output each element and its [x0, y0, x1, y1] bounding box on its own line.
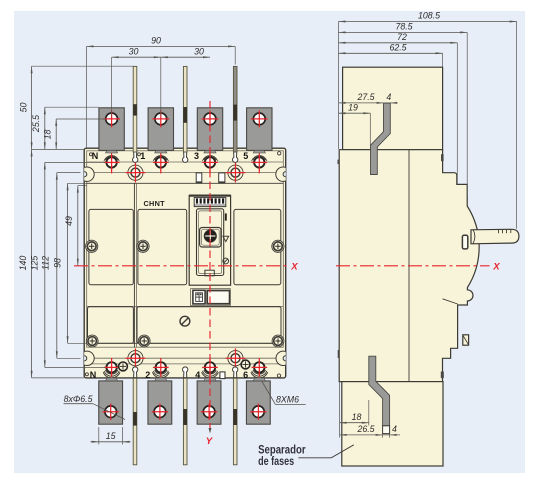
terminal screw bottom pole 6 [253, 370, 265, 374]
upper panel screw left [86, 240, 98, 252]
dim 49 [77, 186, 79, 266]
mount hole top-left edge [80, 167, 94, 181]
dim 30 b [161, 56, 210, 58]
dim 90 [87, 45, 236, 47]
accessory slot A [196, 173, 202, 183]
inner face border [87, 151, 284, 347]
slotted screw [180, 316, 190, 326]
dim 15 extension lines [98, 427, 100, 445]
svg-text:30: 30 [129, 46, 139, 56]
side view: phase separator bottom [369, 356, 390, 426]
svg-text:3: 3 [194, 151, 199, 161]
dim 78.5 [339, 31, 468, 33]
lower panel screw 2 [138, 335, 150, 347]
deg circle N bottom [85, 373, 88, 376]
svg-text:de fases: de fases [258, 454, 294, 468]
ext line 49 top [78, 185, 87, 187]
svg-text:15: 15 [106, 431, 116, 441]
svg-text:125: 125 [30, 256, 40, 271]
terminal tab top pole 1 [148, 108, 173, 151]
handle knob screw [204, 230, 216, 242]
svg-text:18: 18 [352, 412, 362, 422]
svg-text:18: 18 [42, 130, 52, 140]
svg-text:1: 1 [140, 151, 145, 161]
svg-text:140: 140 [18, 256, 28, 271]
ext line side left [338, 22, 340, 150]
svg-text:26.5: 26.5 [356, 424, 374, 434]
svg-text:27.5: 27.5 [356, 92, 374, 102]
dim 15 [91, 441, 131, 443]
mount hole bottom-right edge [276, 351, 290, 365]
label plate [191, 289, 231, 306]
terminal screw top pole N [105, 156, 117, 160]
svg-text:8XM6: 8XM6 [276, 394, 299, 404]
ext line bottom screws [45, 366, 105, 368]
leader 8XM6 [262, 382, 275, 405]
svg-text:4: 4 [392, 424, 397, 434]
handle knob [200, 228, 221, 248]
dim 18 side [340, 422, 369, 424]
keyhole slot bottom x=235.2 [233, 367, 238, 378]
ext line top mount holes [57, 172, 81, 174]
leader 8xD6.5 [93, 404, 125, 420]
upper panel screw mid [137, 240, 149, 252]
leader separador [298, 445, 354, 458]
mounting rod top 3 [233, 66, 237, 152]
lower latch detail [463, 335, 469, 345]
side view: cover seam [443, 299, 458, 304]
svg-text:4: 4 [386, 92, 391, 102]
dim 72 [339, 42, 458, 44]
upper panel N [89, 209, 133, 284]
terminal screw top pole 3 [204, 156, 216, 160]
svg-text:72: 72 [397, 32, 407, 42]
mounting rod bottom 1 [133, 378, 137, 465]
svg-text:N: N [90, 370, 97, 380]
dim 140 [31, 149, 33, 378]
handle track frame [197, 209, 224, 276]
top flange line [87, 172, 284, 174]
dim 19 [339, 112, 371, 114]
svg-text:62.5: 62.5 [389, 43, 406, 53]
terminal tab bottom pole 6 [246, 381, 270, 424]
mounting rod top 2 [183, 66, 187, 152]
lower panel N [88, 307, 134, 344]
ext line top screws [45, 161, 105, 163]
dim 62.5 [339, 52, 443, 54]
ext line side bottom left [339, 382, 341, 438]
upper panel 3 [234, 209, 281, 284]
side view: handle lever [471, 229, 519, 244]
svg-text:30: 30 [194, 46, 204, 56]
svg-text:90: 90 [151, 36, 161, 46]
svg-text:X: X [492, 262, 500, 273]
side view: top terminal block [343, 67, 443, 150]
bottom small slot [220, 372, 225, 379]
centerline Y (vertical, pole 3) [209, 101, 211, 431]
svg-text:98: 98 [52, 258, 62, 268]
mounting rod top 1 [133, 66, 137, 152]
keyhole slot top x=235.2 [232, 151, 237, 163]
dim 112 [56, 173, 58, 359]
svg-text:N: N [92, 151, 99, 161]
upper panel 2 [138, 209, 187, 284]
dim 125 [44, 162, 46, 367]
marker O-slash [223, 258, 229, 264]
dim 90 extension lines [86, 46, 88, 148]
rating dial comb [194, 198, 226, 207]
mount hole top-right edge [276, 167, 290, 181]
mechanism outer frame [189, 195, 230, 285]
terminal tab bottom pole 2 [148, 381, 172, 424]
accessory slot B [219, 173, 225, 183]
svg-text:112: 112 [41, 256, 51, 270]
terminal screw bottom pole N [105, 370, 117, 374]
small screw bottom 6 [241, 360, 250, 369]
handle base arc [473, 229, 475, 243]
handle track bottom detail [205, 270, 214, 276]
top flange bottom line [87, 182, 284, 184]
top terminal block line [87, 161, 284, 163]
mount hole top 1 [128, 165, 143, 180]
left edge lug top [338, 160, 340, 165]
side view: case/cover joint [408, 150, 410, 382]
bottom panels bottom line [87, 342, 284, 344]
marker I [225, 214, 227, 221]
terminal tab top pole N [99, 108, 124, 151]
small screw bottom N [119, 362, 128, 371]
ext line 72 [456, 43, 458, 184]
ext line tab top [45, 106, 99, 108]
dim 98 [67, 183, 69, 343]
keyhole slot bottom x=185.2 [183, 367, 188, 378]
dim 4 bottom [383, 434, 400, 436]
svg-text:49: 49 [64, 216, 74, 226]
deg circle N top [89, 153, 92, 156]
bottom terminal block line [87, 363, 284, 365]
lower panel main [137, 307, 281, 344]
svg-text:4: 4 [195, 370, 200, 380]
ext line tab hole [56, 118, 105, 120]
side view: main body outline [339, 150, 479, 382]
ext line 78.5 [466, 32, 468, 195]
terminal tab bottom pole 4 [197, 381, 221, 424]
terminal screw top pole 1 [155, 156, 167, 160]
mount hole bottom-left edge [80, 351, 94, 365]
svg-text:X: X [290, 261, 298, 272]
ext line bottom mount holes [57, 357, 81, 359]
dim 27.5 [339, 102, 384, 104]
ext line bottom panel edge [68, 342, 87, 344]
terminal tab top pole 3 [197, 108, 222, 151]
left edge lug bottom [338, 350, 340, 358]
marker triangle [223, 236, 229, 241]
svg-text:CHNT: CHNT [143, 199, 165, 208]
dim 30 a [112, 56, 161, 58]
mount hole top 2 [228, 165, 243, 180]
centerline X (side view) [336, 265, 490, 267]
label plate blank window [207, 291, 229, 304]
ext line rods top [32, 65, 134, 67]
mount hole bottom 2 [228, 351, 243, 366]
svg-text:108.5: 108.5 [418, 11, 440, 21]
ext line case top [32, 148, 85, 150]
terminal tab top pole 5 [247, 108, 272, 151]
ext lines 26.5/4 [382, 434, 384, 438]
svg-text:50: 50 [18, 103, 28, 113]
mount hole bottom 1 [128, 351, 143, 366]
terminal screw top pole 5 [253, 156, 265, 160]
side view: phase separator top [371, 103, 391, 174]
escutcheon clip window [462, 235, 467, 249]
pole divider (N module) [133, 183, 135, 347]
svg-text:2: 2 [145, 370, 150, 380]
svg-text:25.5: 25.5 [31, 115, 41, 133]
dim 25.5 [44, 107, 46, 149]
handle grip ridges [498, 230, 500, 234]
dim 4 top [384, 102, 398, 104]
label plate window icon [193, 290, 205, 304]
dim 30 extension lines [111, 57, 113, 116]
deg circle 1 top [138, 153, 141, 156]
lower panel screw 1 [86, 335, 98, 347]
mid face line [87, 305, 284, 307]
svg-text:78.5: 78.5 [395, 22, 412, 32]
svg-text:8xΦ6.5: 8xΦ6.5 [64, 394, 93, 404]
ext line sep leg [368, 400, 370, 426]
svg-text:5: 5 [243, 151, 248, 161]
ext line top panel edge [68, 182, 87, 184]
dim 50 [31, 66, 33, 149]
bottom flange line [87, 357, 284, 359]
dim 18 [55, 119, 57, 149]
keyhole slot top x=185.2 [183, 151, 188, 163]
ext line case bottom [32, 377, 85, 379]
mounting rod bottom 2 [183, 378, 187, 465]
ext line 62.5 [442, 53, 444, 67]
lower panel screw 3 [272, 335, 284, 347]
side clip top [441, 154, 444, 161]
deg circle bottom-right corner [277, 374, 280, 377]
dim 27.5 ext [383, 103, 385, 105]
svg-text:19: 19 [348, 102, 358, 112]
terminal tab bottom pole N [99, 381, 123, 424]
dim 108.5 [339, 21, 517, 23]
ext line 108.5 [516, 22, 518, 229]
keyhole slot bottom x=135.2 [133, 367, 138, 378]
phase separator bottom tip [383, 426, 390, 434]
side view: bottom block (separador de fases) [342, 382, 443, 466]
dim 19 ext [369, 113, 371, 146]
mounting rod bottom 3 [233, 378, 237, 465]
keyhole slot top x=135.2 [133, 151, 138, 163]
centerline X (front view) [74, 265, 290, 267]
upper panel screw right [272, 240, 284, 252]
front view: molded case body [84, 148, 286, 378]
deg circle top-right corner [278, 152, 281, 155]
side clip bottom [441, 372, 444, 379]
terminal screw bottom pole 4 [204, 370, 216, 374]
dim 26.5 [340, 434, 383, 436]
svg-text:6: 6 [243, 370, 248, 380]
terminal screw bottom pole 2 [155, 370, 167, 374]
